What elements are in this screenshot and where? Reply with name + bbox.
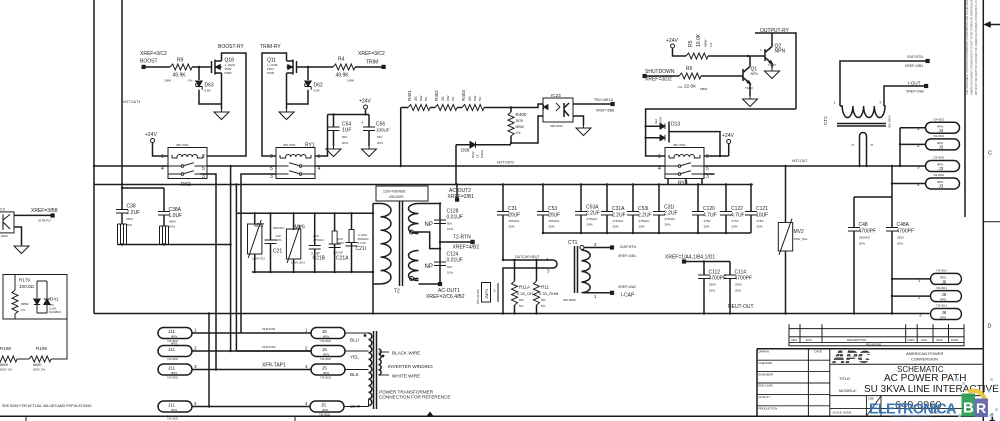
capacitor C112: [698, 275, 710, 279]
svg-text:250VAC: 250VAC: [859, 236, 871, 240]
ground below C54: [326, 146, 341, 157]
svg-text:CHK: CHK: [921, 338, 927, 342]
resistor R403: [462, 105, 484, 111]
svg-text:MV7: MV7: [254, 223, 265, 229]
ground below Q11: [279, 109, 294, 120]
svg-text:275VAC: 275VAC: [313, 238, 325, 242]
svg-text:2.2UF: 2.2UF: [127, 210, 141, 216]
svg-text:5: 5: [270, 166, 273, 172]
wire SHUTDOWN to R6: [647, 75, 679, 77]
svg-text:22.6K: 22.6K: [684, 84, 697, 89]
svg-text:1%: 1%: [709, 42, 713, 47]
svg-text:MW: MW: [419, 96, 423, 101]
svg-text:20%: 20%: [613, 225, 619, 229]
svg-text:5%: 5%: [519, 304, 524, 308]
watermark pixel decorations: [956, 378, 998, 417]
svg-text:275V: 275V: [732, 219, 739, 223]
capacitor C31A: [606, 185, 608, 234]
varistor MV2: [785, 166, 787, 314]
svg-text:J5: J5: [322, 347, 327, 352]
border right inner line: [964, 0, 966, 217]
capacitor C120: [697, 185, 699, 234]
svg-text:RY1: RY1: [305, 143, 315, 149]
svg-text:BOOST-RY: BOOST-RY: [218, 44, 244, 50]
svg-text:R6: R6: [686, 66, 693, 72]
svg-text:91TB-PLT: 91TB-PLT: [38, 219, 52, 223]
svg-text:460-1B1A: 460-1B1A: [888, 115, 892, 128]
svg-text:3: 3: [202, 174, 205, 180]
svg-text:CHECKED: CHECKED: [759, 361, 773, 365]
svg-text:D41: D41: [50, 297, 59, 302]
svg-text:R5: R5: [688, 40, 694, 47]
svg-text:0.01UF: 0.01UF: [447, 215, 463, 221]
svg-text:724-0002: 724-0002: [167, 357, 179, 361]
wire R401-R402: [430, 107, 435, 109]
svg-text:R403: R403: [461, 90, 466, 101]
svg-text:THIS DOCUMENT CONTAINS PROPRIE: THIS DOCUMENT CONTAINS PROPRIETARY INFOR…: [965, 0, 969, 95]
svg-text:0.01UF: 0.01UF: [447, 258, 463, 264]
svg-text:CT2: CT2: [823, 116, 828, 125]
border zone tick right: [983, 221, 1000, 223]
connector J5 pin3: [311, 364, 345, 375]
svg-text:20%: 20%: [709, 289, 715, 293]
svg-text:5: 5: [706, 166, 709, 172]
svg-text:SCALE: NONE: SCALE: NONE: [833, 411, 852, 415]
wire lower cap bus y=233: [543, 232, 751, 234]
svg-text:HOT-OUT: HOT-OUT: [792, 159, 807, 163]
capacitor C38: [116, 210, 128, 214]
svg-text:348-0100: 348-0100: [550, 124, 563, 128]
svg-text:T2: T2: [394, 289, 400, 295]
size box: [866, 396, 881, 417]
wire J6-1: [892, 278, 931, 280]
svg-text:HOT-OUT3: HOT-OUT3: [123, 100, 140, 104]
svg-text:2.2UF: 2.2UF: [586, 211, 600, 217]
svg-text:500V 2%: 500V 2%: [0, 368, 13, 372]
connector J6 pin2: [931, 291, 962, 302]
wire mid vertical bus x=236.4: [236, 185, 311, 352]
svg-text:ENGINEER: ENGINEER: [759, 372, 774, 376]
svg-text:+24V: +24V: [722, 133, 734, 139]
svg-text:C21B: C21B: [313, 256, 326, 262]
label WHITE WIRE: [379, 374, 390, 376]
svg-text:60V: 60V: [447, 265, 452, 269]
svg-text:T2-RTN: T2-RTN: [453, 235, 471, 241]
svg-text:B: B: [963, 400, 974, 417]
svg-text:WHT: WHT: [350, 404, 361, 409]
transistor Q11: [287, 60, 297, 75]
svg-text:250V: 250V: [897, 236, 904, 240]
svg-text:MBW: MBW: [700, 87, 708, 91]
svg-text:1: 1: [917, 126, 920, 131]
wire CT1 pin2 to ICAP-RTN: [582, 248, 611, 251]
svg-text:MV6: MV6: [295, 225, 306, 231]
svg-text:DATE: DATE: [951, 338, 958, 342]
svg-text:5: 5: [202, 166, 205, 172]
svg-text:20%: 20%: [732, 225, 738, 229]
svg-text:TRLY-WELD: TRLY-WELD: [594, 98, 614, 102]
title block signer rows: [757, 360, 830, 406]
svg-text:CONNECTION FOR REFERENCE: CONNECTION FOR REFERENCE: [379, 395, 450, 400]
svg-text:MBW: MBW: [516, 125, 525, 129]
svg-text:JMP1: JMP1: [484, 288, 489, 299]
svg-text:20%: 20%: [704, 225, 710, 229]
svg-text:XREF=4/B2: XREF=4/B2: [453, 245, 480, 251]
svg-text:20%: 20%: [377, 141, 383, 145]
svg-text:XREF=2/B1: XREF=2/B1: [905, 64, 923, 68]
svg-text:I-CAP: I-CAP: [621, 293, 635, 299]
wire chain drop to HOT-OUT bus: [401, 108, 408, 167]
svg-text:C48A: C48A: [897, 222, 910, 228]
capacitor C114: [724, 275, 736, 279]
svg-text:3: 3: [194, 364, 197, 369]
border bottom tick 1: [25, 416, 27, 421]
title block outline: [757, 349, 983, 416]
svg-text:R400: R400: [516, 112, 527, 117]
svg-text:724-0002: 724-0002: [933, 173, 945, 177]
svg-text:1/8W: 1/8W: [164, 79, 171, 83]
connector J11 pin4: [158, 401, 192, 412]
svg-text:J3: J3: [939, 145, 944, 150]
capacitor C122: [725, 185, 727, 234]
svg-text:724-0002: 724-0002: [933, 134, 945, 138]
svg-text:J5: J5: [321, 403, 326, 408]
svg-text:MW: MW: [446, 96, 450, 101]
svg-text:2: 2: [918, 295, 921, 300]
svg-text:20%: 20%: [169, 225, 175, 229]
svg-text:10%: 10%: [447, 227, 453, 231]
wire cluster top bus y=213.3: [236, 212, 373, 214]
svg-text:NP: NP: [425, 264, 433, 270]
svg-text:3PIN: 3PIN: [940, 316, 946, 320]
svg-text:724-0014: 724-0014: [936, 304, 948, 308]
svg-text:4PIN: 4PIN: [323, 371, 329, 375]
svg-text:NP: NP: [425, 222, 433, 228]
svg-text:C31: C31: [508, 206, 517, 212]
svg-text:2K: 2K: [413, 96, 418, 101]
svg-text:SHUTDOWN: SHUTDOWN: [645, 69, 675, 75]
svg-text:4: 4: [305, 401, 308, 406]
svg-text:2: 2: [194, 346, 197, 351]
svg-text:250V: 250V: [735, 283, 742, 287]
svg-text:NEUT-OUT: NEUT-OUT: [728, 304, 754, 310]
svg-text:680K: 680K: [33, 363, 42, 367]
svg-text:CT1: CT1: [568, 240, 578, 246]
svg-text:450-7001: 450-7001: [176, 143, 189, 147]
svg-text:3: 3: [547, 269, 550, 274]
capacitor C54: [328, 127, 340, 131]
svg-text:10UF: 10UF: [756, 213, 768, 219]
svg-text:400V: 400V: [337, 241, 344, 245]
svg-text:2.2UF: 2.2UF: [664, 211, 678, 217]
svg-text:20UF: 20UF: [548, 213, 560, 219]
svg-text:150VAC: 150VAC: [509, 219, 521, 223]
svg-text:AMERICAN POWER CONVERSION IT I: AMERICAN POWER CONVERSION IT IS NOT TO B…: [970, 0, 974, 95]
svg-text:XREF=4/A2: XREF=4/A2: [618, 285, 636, 289]
svg-text:I-OUT: I-OUT: [908, 81, 921, 86]
svg-text:IC23: IC23: [551, 93, 561, 98]
svg-text:-0100: -0100: [0, 234, 8, 238]
svg-text:450-7001: 450-7001: [283, 143, 296, 147]
svg-text:460-0006: 460-0006: [563, 298, 576, 302]
svg-text:724-0002: 724-0002: [933, 117, 945, 121]
svg-text:4700PF: 4700PF: [709, 276, 727, 282]
svg-text:1: 1: [305, 328, 308, 333]
svg-text:1: 1: [194, 328, 197, 333]
svg-text:OUTCAP-NEUT: OUTCAP-NEUT: [515, 255, 540, 259]
wire to C112 C114: [686, 262, 730, 276]
svg-text:450-7001: 450-7001: [673, 143, 686, 147]
svg-text:724-0014: 724-0014: [936, 269, 948, 273]
svg-text:XREF=3/C2: XREF=3/C2: [140, 51, 167, 57]
svg-text:XREF=2/C6,4/B2: XREF=2/C6,4/B2: [426, 294, 465, 300]
resistor R179 element: [12, 290, 18, 314]
wire J6-2: [892, 295, 931, 297]
svg-text:XFR-TAP1: XFR-TAP1: [262, 363, 286, 369]
transistor Q1: [743, 67, 750, 84]
svg-text:DATE: DATE: [815, 350, 822, 354]
wire R6 to Q1 base: [701, 75, 743, 77]
border bottom triangle marker: [427, 412, 434, 417]
svg-text:R198: R198: [0, 346, 11, 351]
svg-text:TITLE:: TITLE:: [839, 376, 851, 381]
ground below Q18: [214, 109, 229, 120]
wire IC23 input: [511, 104, 543, 143]
svg-text:1: 1: [594, 294, 597, 299]
svg-text:J6: J6: [942, 280, 947, 285]
wire R4 to TRIM: [355, 66, 382, 68]
relay RY1 (mirrored): [276, 148, 315, 179]
svg-text:1: 1: [318, 154, 321, 160]
connector J5 pin1: [311, 328, 345, 339]
wire gate to R4: [297, 66, 334, 68]
svg-text:1/8W: 1/8W: [347, 79, 354, 83]
svg-text:3: 3: [917, 165, 920, 170]
svg-text:D414BC0: D414BC0: [49, 310, 62, 314]
svg-text:APVL: APVL: [936, 338, 944, 342]
resistor R6: [679, 73, 701, 79]
connector J6 pin1: [931, 273, 962, 284]
svg-text:C53I: C53I: [638, 206, 649, 212]
resistor R11A: [514, 260, 516, 314]
wire C38 top node: [122, 188, 164, 212]
svg-text:MW: MW: [473, 96, 477, 101]
svg-text:A&J: A&J: [654, 118, 658, 124]
svg-text:C120: C120: [703, 206, 715, 212]
wire +24V to RY2 pin1: [153, 143, 169, 157]
svg-text:250V: 250V: [709, 283, 716, 287]
svg-text:J3: J3: [939, 166, 944, 171]
capacitor C21: [270, 213, 272, 272]
svg-text:4700PF: 4700PF: [859, 229, 877, 235]
svg-text:XREF=2/B1: XREF=2/B1: [448, 194, 475, 200]
svg-text:R9: R9: [177, 58, 184, 64]
svg-text:D4006: D4006: [480, 149, 484, 158]
svg-text:10.0K: 10.0K: [696, 33, 702, 47]
svg-text:3: 3: [851, 144, 855, 146]
svg-text:R401: R401: [407, 90, 412, 101]
svg-text:63V: 63V: [377, 135, 382, 139]
svg-text:5%: 5%: [424, 96, 428, 101]
svg-text:DESCRIPTION: DESCRIPTION: [847, 338, 866, 342]
svg-text:MODEL#:: MODEL#:: [839, 388, 857, 393]
capacitor C38A: [158, 212, 170, 216]
svg-text:20%: 20%: [509, 225, 515, 229]
svg-text:3: 3: [305, 364, 308, 369]
svg-text:ECO: ECO: [806, 338, 813, 342]
transformer T2 core: [400, 201, 403, 286]
wire bus x=209 from bottom bus to row4: [208, 314, 210, 407]
diode D62 zener: [307, 67, 309, 80]
svg-text:4700PF: 4700PF: [735, 276, 753, 282]
varistor MV7: [254, 213, 256, 272]
watermark yellow ring: [968, 391, 985, 414]
svg-text:1%: 1%: [188, 79, 193, 83]
wire opto to XREF square: [14, 214, 51, 216]
svg-text:0.33_OHM: 0.33_OHM: [539, 291, 558, 296]
watermark purple tile R: [975, 399, 989, 418]
wire OUTCAP-NEUT to CT1 pin4 and return: [503, 260, 557, 314]
svg-text:60V: 60V: [447, 222, 452, 226]
connector J5 pin2: [311, 346, 345, 357]
wire R5 to Q2 base: [708, 55, 765, 57]
svg-text:OWN: OWN: [908, 338, 915, 342]
svg-text:IOUT-RTN: IOUT-RTN: [907, 55, 923, 59]
svg-text:QUALITY: QUALITY: [759, 395, 771, 399]
wire Q1 emitter to ground: [749, 84, 751, 97]
op-amp IC2x opto box at left edge: [0, 212, 14, 233]
svg-text:275VAC: 275VAC: [639, 219, 651, 223]
svg-text:120V-VSENSE: 120V-VSENSE: [383, 190, 406, 194]
transformer reference primary coil: [369, 333, 372, 406]
svg-text:2K: 2K: [467, 96, 472, 101]
wire T2 primary left rail: [373, 204, 381, 314]
svg-text:3: 3: [270, 174, 273, 180]
wire R198 to R199: [17, 358, 29, 360]
capacitor C48A: [886, 228, 898, 232]
svg-text:10%: 10%: [276, 238, 282, 242]
svg-text:R11: R11: [541, 285, 550, 290]
svg-text:XREF=2/A2: XREF=2/A2: [906, 90, 924, 94]
svg-text:20%: 20%: [639, 225, 645, 229]
svg-text:J6: J6: [942, 310, 947, 315]
120V-VSENSE box: [376, 186, 428, 201]
resistor R179 block outline: [3, 275, 67, 320]
svg-text:4PIN: 4PIN: [171, 408, 177, 412]
connector J11 pin1: [158, 328, 192, 339]
svg-text:BLK: BLK: [350, 372, 360, 377]
svg-text:4PIN: 4PIN: [171, 335, 177, 339]
svg-text:MBW: MBW: [21, 302, 29, 306]
svg-text:4PIN: 4PIN: [323, 353, 329, 357]
svg-text:ICAP-RTN: ICAP-RTN: [620, 245, 637, 249]
svg-text:PWR: PWR: [267, 71, 275, 75]
svg-text:150V_9AJ: 150V_9AJ: [794, 237, 808, 241]
svg-text:R179: R179: [19, 278, 30, 283]
svg-text:100UF: 100UF: [376, 128, 390, 133]
svg-text:NPN: NPN: [751, 72, 759, 76]
svg-text:20%: 20%: [342, 141, 348, 145]
svg-text:5%: 5%: [541, 304, 546, 308]
svg-text:2: 2: [917, 143, 920, 148]
svg-text:C2: C2: [0, 207, 6, 212]
svg-text:2: 2: [270, 154, 273, 160]
diode D13 dual: [646, 122, 669, 143]
svg-text:100.0Ω: 100.0Ω: [19, 284, 34, 289]
svg-text:+24V: +24V: [359, 99, 371, 105]
wire bottom bus y=313.5: [94, 313, 930, 315]
wire RY2 pin3 down bus: [200, 174, 216, 370]
svg-text:870-2970A: 870-2970A: [476, 289, 480, 304]
svg-text:R402: R402: [434, 90, 439, 101]
svg-text:10%: 10%: [447, 271, 453, 275]
svg-text:AMERICAN POWER: AMERICAN POWER: [906, 351, 943, 356]
capacitor C56 polarized: [363, 127, 375, 131]
capacitor C31I: [658, 185, 660, 234]
wire D63 to Q18 source, ground: [199, 73, 222, 109]
svg-text:500V: 500V: [471, 151, 475, 158]
transformer CT2 primary: [840, 106, 885, 118]
svg-text:724-0002: 724-0002: [320, 339, 332, 343]
wire CT2 pin1 to IOUT-RTN: [840, 61, 926, 106]
svg-text:724-0002: 724-0002: [933, 156, 945, 160]
svg-text:XREF=1/A4,1/B4,1/D1: XREF=1/A4,1/B4,1/D1: [665, 255, 715, 261]
svg-text:2.2UF: 2.2UF: [638, 213, 652, 219]
svg-text:287K: 287K: [516, 119, 525, 123]
svg-text:2: 2: [706, 154, 709, 160]
svg-text:BLACK WIRE: BLACK WIRE: [392, 351, 420, 356]
diode D66: [456, 145, 511, 185]
connector J11 pin2: [158, 346, 192, 357]
svg-text:BOOST: BOOST: [140, 59, 158, 65]
wire Q2 collector loop: [755, 33, 796, 109]
arrow top right: [990, 24, 1000, 26]
svg-text:1: 1: [658, 154, 661, 160]
wire CT1 pin1 to I-CAP: [584, 292, 611, 294]
svg-text:5%: 5%: [478, 96, 482, 101]
svg-text:4700PF: 4700PF: [897, 229, 915, 235]
svg-text:49.9K: 49.9K: [173, 73, 187, 79]
wire row1 y=333: [192, 332, 311, 334]
svg-text:CONVERSION: CONVERSION: [911, 357, 938, 362]
svg-text:BLU: BLU: [350, 338, 359, 343]
svg-text:C: C: [988, 151, 992, 157]
svg-text:J5: J5: [322, 329, 327, 334]
svg-text:4PIN: 4PIN: [323, 335, 329, 339]
wire Q11 drain up and over to RY1 pin2: [262, 53, 287, 156]
capacitor C48: [848, 228, 860, 232]
svg-text:2: 2: [305, 346, 308, 351]
relay RY3: [665, 148, 704, 179]
svg-text:PRODUCTION: PRODUCTION: [759, 407, 778, 411]
svg-text:1.0UF: 1.0UF: [169, 213, 183, 219]
svg-text:R11A: R11A: [519, 285, 531, 290]
wire IC23 emitter to ground: [573, 116, 584, 125]
svg-text:DRAWN: DRAWN: [759, 350, 769, 354]
svg-text:2.2UF: 2.2UF: [612, 213, 626, 219]
svg-text:5%: 5%: [451, 96, 455, 101]
wire J3-1 J3-2 riser: [900, 128, 926, 166]
wire row3 y=369.5: [192, 369, 311, 371]
svg-text:250V: 250V: [126, 217, 133, 221]
svg-text:50V: 50V: [342, 135, 347, 139]
wire opto emitter to ground: [14, 227, 22, 245]
border bottom line: [0, 415, 983, 417]
wire R9 to gate: [192, 66, 212, 68]
svg-text:130V-75J: 130V-75J: [252, 257, 265, 261]
wire RY3 to cap bus stubs: [668, 179, 702, 185]
svg-text:J11: J11: [168, 329, 176, 334]
